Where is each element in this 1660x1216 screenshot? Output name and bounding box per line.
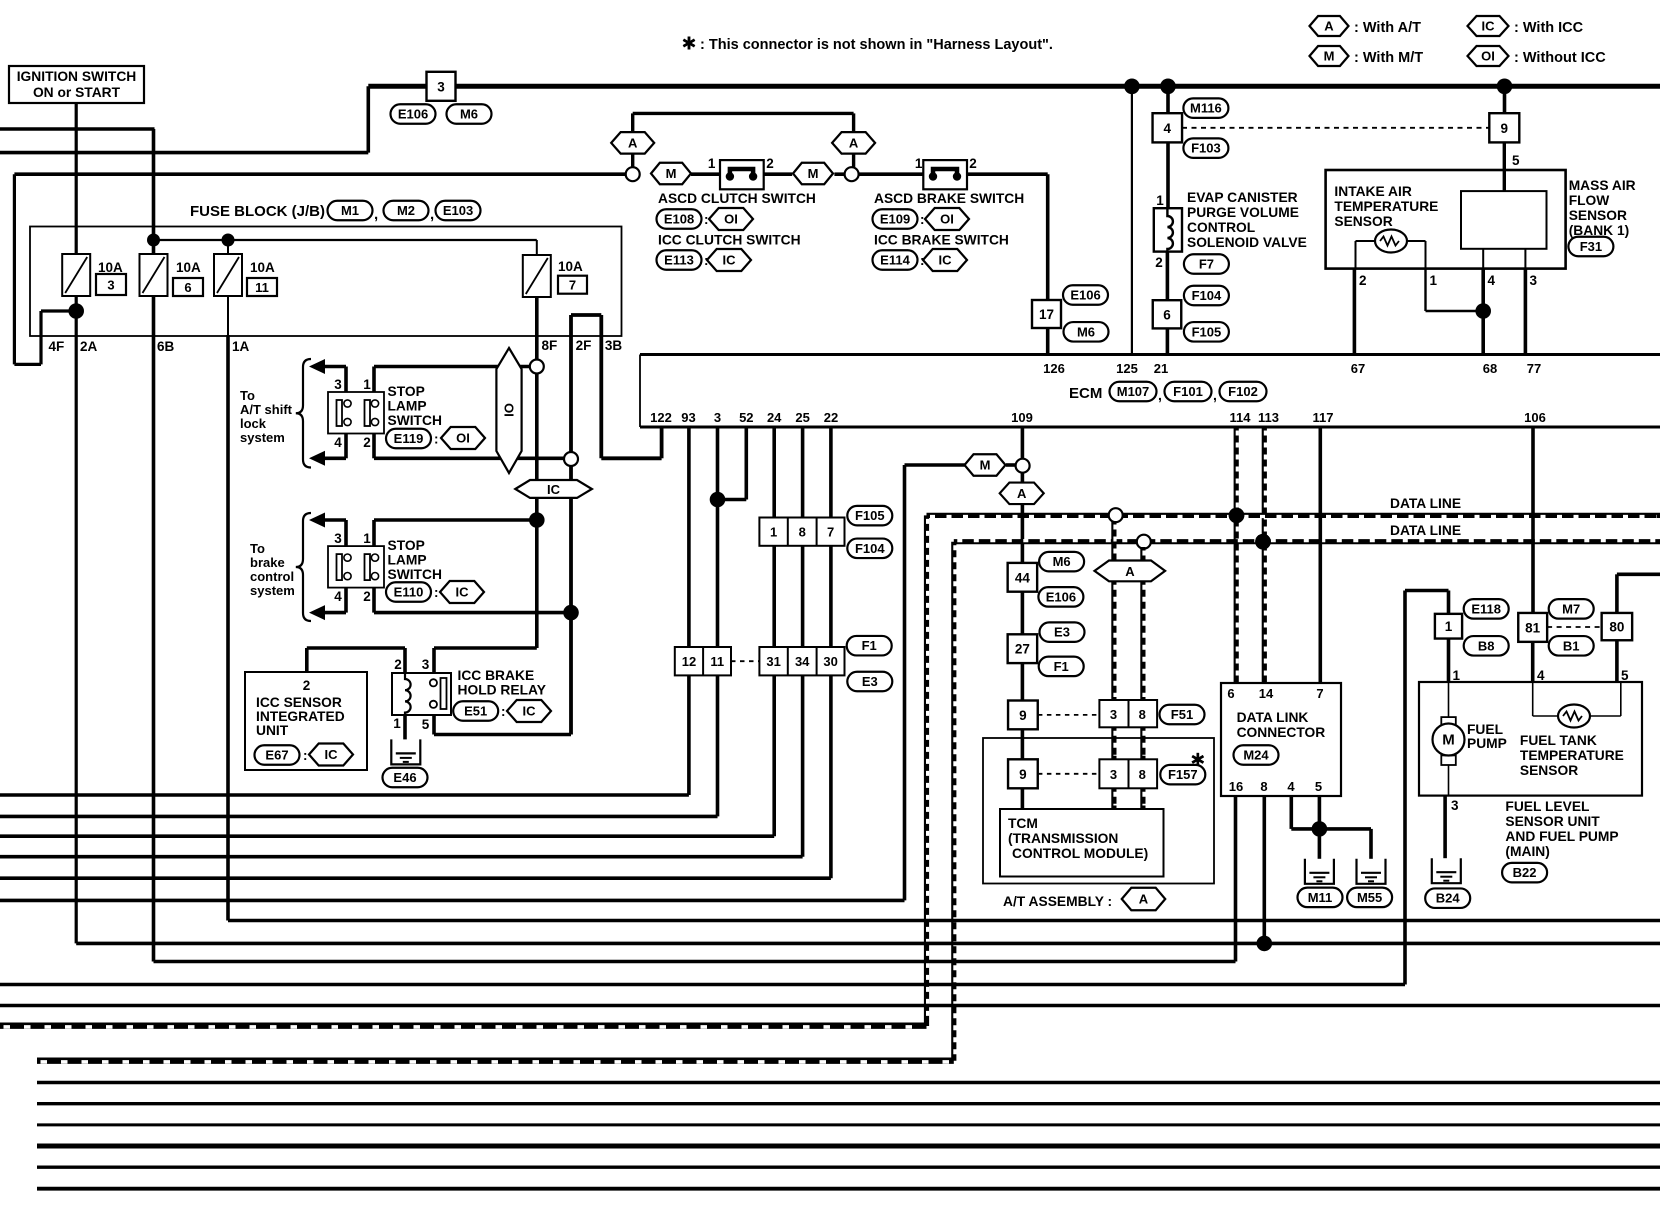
svg-text::: : bbox=[303, 748, 308, 763]
svg-text:OI: OI bbox=[1481, 49, 1495, 64]
svg-text:,: , bbox=[430, 206, 434, 223]
svg-text:B1: B1 bbox=[1563, 638, 1580, 653]
svg-text:M: M bbox=[980, 458, 991, 473]
svg-text:4F: 4F bbox=[49, 339, 65, 354]
svg-text:TEMPERATURE: TEMPERATURE bbox=[1334, 199, 1438, 214]
svg-text:1: 1 bbox=[915, 156, 923, 171]
svg-text:E110: E110 bbox=[394, 585, 424, 600]
svg-text:OI: OI bbox=[940, 212, 954, 227]
svg-text:3: 3 bbox=[437, 79, 445, 94]
svg-text:PURGE VOLUME: PURGE VOLUME bbox=[1187, 205, 1299, 220]
svg-text:8F: 8F bbox=[542, 338, 558, 353]
svg-text:2: 2 bbox=[363, 435, 371, 450]
svg-text:10A: 10A bbox=[558, 259, 583, 274]
svg-text:24: 24 bbox=[767, 410, 782, 425]
svg-text:ON or START: ON or START bbox=[33, 85, 121, 100]
svg-text:126: 126 bbox=[1043, 361, 1065, 376]
svg-text:M6: M6 bbox=[1053, 554, 1071, 569]
svg-text:E106: E106 bbox=[398, 107, 428, 122]
svg-text:2F: 2F bbox=[576, 338, 592, 353]
svg-text:9: 9 bbox=[1501, 121, 1509, 136]
svg-text:7: 7 bbox=[569, 278, 576, 293]
svg-text:A: A bbox=[849, 135, 859, 150]
svg-text:F104: F104 bbox=[1192, 288, 1222, 303]
svg-text:6: 6 bbox=[1227, 686, 1234, 701]
svg-text:11: 11 bbox=[710, 654, 724, 669]
svg-text:67: 67 bbox=[1351, 361, 1365, 376]
svg-text:1: 1 bbox=[770, 525, 777, 540]
svg-text:IGNITION SWITCH: IGNITION SWITCH bbox=[17, 69, 137, 84]
svg-text:To: To bbox=[240, 388, 255, 403]
svg-text:E113: E113 bbox=[664, 253, 694, 268]
svg-text:lock: lock bbox=[240, 416, 267, 431]
svg-text:M11: M11 bbox=[1308, 890, 1333, 905]
svg-text:M1: M1 bbox=[341, 203, 359, 218]
svg-text:LAMP: LAMP bbox=[388, 553, 427, 568]
svg-text:122: 122 bbox=[650, 410, 672, 425]
svg-text:4: 4 bbox=[334, 435, 342, 450]
svg-text:E103: E103 bbox=[443, 203, 473, 218]
svg-text:9: 9 bbox=[1019, 708, 1027, 723]
svg-text:A/T shift: A/T shift bbox=[240, 402, 293, 417]
svg-text:F7: F7 bbox=[1199, 257, 1214, 272]
svg-text:5: 5 bbox=[1512, 153, 1520, 168]
svg-text:IC: IC bbox=[547, 482, 561, 497]
svg-text:5: 5 bbox=[1621, 668, 1629, 683]
svg-text:B22: B22 bbox=[1513, 865, 1537, 880]
svg-text:8: 8 bbox=[1139, 767, 1146, 782]
svg-text:27: 27 bbox=[1015, 642, 1030, 657]
svg-text:3: 3 bbox=[1110, 767, 1117, 782]
svg-text:1: 1 bbox=[1156, 193, 1164, 208]
svg-text:81: 81 bbox=[1525, 620, 1541, 635]
svg-text:A: A bbox=[1324, 19, 1334, 34]
svg-text:3: 3 bbox=[714, 410, 721, 425]
svg-text:E67: E67 bbox=[265, 748, 288, 763]
svg-text:SENSOR UNIT: SENSOR UNIT bbox=[1505, 814, 1600, 829]
svg-text:: With M/T: : With M/T bbox=[1354, 50, 1423, 66]
svg-text:: Without ICC: : Without ICC bbox=[1514, 50, 1606, 66]
svg-text:FUEL: FUEL bbox=[1467, 722, 1503, 737]
svg-text:4: 4 bbox=[334, 589, 342, 604]
svg-text:SWITCH: SWITCH bbox=[388, 413, 442, 428]
svg-text:1A: 1A bbox=[232, 339, 250, 354]
svg-text:2: 2 bbox=[394, 657, 402, 672]
svg-text:113: 113 bbox=[1258, 410, 1279, 425]
svg-text:4: 4 bbox=[1488, 273, 1496, 288]
svg-text:3: 3 bbox=[422, 657, 430, 672]
svg-text:ICC BRAKE: ICC BRAKE bbox=[458, 668, 535, 683]
svg-text:4: 4 bbox=[1537, 668, 1545, 683]
svg-text:1: 1 bbox=[363, 377, 371, 392]
svg-text:AND FUEL PUMP: AND FUEL PUMP bbox=[1505, 829, 1618, 844]
svg-text:2: 2 bbox=[363, 589, 371, 604]
svg-text:OI: OI bbox=[502, 403, 517, 417]
svg-text:E106: E106 bbox=[1070, 288, 1100, 303]
svg-text:30: 30 bbox=[823, 654, 837, 669]
svg-text:3B: 3B bbox=[605, 338, 623, 353]
svg-text:M: M bbox=[1324, 49, 1335, 64]
svg-text:52: 52 bbox=[739, 410, 753, 425]
svg-text:: This connector is not shown: : This connector is not shown in "Harnes… bbox=[700, 37, 1053, 53]
svg-text:3: 3 bbox=[1451, 798, 1459, 813]
svg-text:ICC SENSOR: ICC SENSOR bbox=[256, 695, 342, 710]
svg-text:SWITCH: SWITCH bbox=[388, 567, 442, 582]
svg-text:E3: E3 bbox=[862, 674, 878, 689]
svg-text:1: 1 bbox=[1445, 619, 1453, 634]
svg-text:M6: M6 bbox=[1077, 324, 1095, 339]
svg-text:ICC CLUTCH SWITCH: ICC CLUTCH SWITCH bbox=[658, 233, 801, 248]
svg-text:STOP: STOP bbox=[388, 384, 425, 399]
svg-text:SENSOR: SENSOR bbox=[1520, 763, 1578, 778]
svg-text:IC: IC bbox=[723, 253, 737, 268]
svg-text:(MAIN): (MAIN) bbox=[1505, 844, 1549, 859]
svg-text:STOP: STOP bbox=[388, 538, 425, 553]
svg-text:17: 17 bbox=[1039, 307, 1054, 322]
svg-text::: : bbox=[434, 585, 439, 600]
svg-text:M24: M24 bbox=[1243, 748, 1269, 763]
svg-text:IC: IC bbox=[1482, 19, 1496, 34]
svg-text:8: 8 bbox=[799, 525, 806, 540]
svg-text:1: 1 bbox=[1430, 273, 1438, 288]
svg-text:77: 77 bbox=[1527, 361, 1541, 376]
svg-text:F101: F101 bbox=[1173, 384, 1203, 399]
svg-text:M2: M2 bbox=[397, 203, 415, 218]
svg-text:25: 25 bbox=[795, 410, 809, 425]
svg-text:2: 2 bbox=[766, 156, 774, 171]
svg-text:ECM: ECM bbox=[1069, 385, 1102, 402]
svg-text:OI: OI bbox=[456, 431, 470, 446]
svg-text:A: A bbox=[628, 135, 638, 150]
svg-text:10A: 10A bbox=[98, 260, 123, 275]
svg-text:6: 6 bbox=[184, 280, 191, 295]
svg-text:106: 106 bbox=[1524, 410, 1546, 425]
svg-text:8: 8 bbox=[1260, 779, 1267, 794]
svg-text:SENSOR: SENSOR bbox=[1569, 208, 1627, 223]
svg-text::: : bbox=[920, 212, 925, 227]
svg-text:1: 1 bbox=[1453, 668, 1461, 683]
svg-text:(TRANSMISSION: (TRANSMISSION bbox=[1008, 831, 1118, 846]
svg-text:1: 1 bbox=[363, 531, 371, 546]
svg-text:80: 80 bbox=[1609, 620, 1624, 635]
svg-text:control: control bbox=[250, 569, 294, 584]
svg-text:CONNECTOR: CONNECTOR bbox=[1237, 725, 1326, 740]
svg-text:,: , bbox=[1158, 387, 1162, 403]
svg-text:68: 68 bbox=[1483, 361, 1497, 376]
svg-text:2: 2 bbox=[969, 156, 977, 171]
svg-text:IC: IC bbox=[325, 747, 339, 762]
svg-text:E108: E108 bbox=[664, 212, 694, 227]
svg-text:16: 16 bbox=[1229, 779, 1243, 794]
svg-text:M116: M116 bbox=[1190, 101, 1222, 116]
svg-text:F1: F1 bbox=[862, 638, 877, 653]
svg-text:IC: IC bbox=[456, 585, 470, 600]
svg-text:2: 2 bbox=[303, 678, 311, 693]
svg-text:93: 93 bbox=[681, 410, 695, 425]
svg-text:DATA LINE: DATA LINE bbox=[1390, 523, 1461, 538]
svg-text:10A: 10A bbox=[176, 260, 201, 275]
svg-text:M: M bbox=[666, 166, 677, 181]
svg-text:5: 5 bbox=[422, 717, 430, 732]
svg-text:FUSE BLOCK (J/B): FUSE BLOCK (J/B) bbox=[190, 203, 325, 220]
svg-text:31: 31 bbox=[766, 654, 780, 669]
svg-text:10A: 10A bbox=[250, 260, 275, 275]
svg-text:UNIT: UNIT bbox=[256, 723, 289, 738]
svg-text:TEMPERATURE: TEMPERATURE bbox=[1520, 748, 1624, 763]
svg-text::: : bbox=[704, 212, 709, 227]
svg-text:ASCD CLUTCH SWITCH: ASCD CLUTCH SWITCH bbox=[658, 191, 816, 206]
svg-text:E114: E114 bbox=[880, 253, 910, 268]
svg-text:ICC BRAKE SWITCH: ICC BRAKE SWITCH bbox=[874, 233, 1009, 248]
svg-text:B8: B8 bbox=[1478, 638, 1495, 653]
svg-text::: : bbox=[434, 432, 439, 447]
svg-text:SOLENOID VALVE: SOLENOID VALVE bbox=[1187, 235, 1307, 250]
svg-text:6: 6 bbox=[1163, 307, 1171, 322]
svg-text:109: 109 bbox=[1011, 410, 1033, 425]
svg-text:IC: IC bbox=[939, 253, 953, 268]
svg-text:34: 34 bbox=[795, 654, 810, 669]
svg-text:3: 3 bbox=[1110, 707, 1117, 722]
svg-text:CONTROL: CONTROL bbox=[1187, 220, 1255, 235]
svg-text:E106: E106 bbox=[1046, 589, 1076, 604]
svg-text:F31: F31 bbox=[1580, 239, 1602, 254]
svg-text:CONTROL MODULE): CONTROL MODULE) bbox=[1012, 846, 1148, 861]
svg-text:3: 3 bbox=[1530, 273, 1538, 288]
svg-text:DATA LINK: DATA LINK bbox=[1237, 710, 1309, 725]
svg-text:INTEGRATED: INTEGRATED bbox=[256, 709, 345, 724]
svg-text:125: 125 bbox=[1116, 361, 1138, 376]
svg-text:brake: brake bbox=[250, 555, 285, 570]
svg-text:E118: E118 bbox=[1471, 601, 1501, 616]
svg-text:1: 1 bbox=[393, 716, 401, 731]
svg-text:F104: F104 bbox=[855, 541, 885, 556]
svg-text:7: 7 bbox=[827, 525, 834, 540]
svg-text:F105: F105 bbox=[855, 508, 885, 523]
svg-text:HOLD RELAY: HOLD RELAY bbox=[458, 683, 546, 698]
svg-text:ASCD BRAKE SWITCH: ASCD BRAKE SWITCH bbox=[874, 191, 1024, 206]
svg-text:A: A bbox=[1139, 892, 1149, 907]
svg-text:F1: F1 bbox=[1054, 659, 1069, 674]
svg-text:,: , bbox=[1213, 387, 1217, 403]
svg-text:E3: E3 bbox=[1054, 625, 1070, 640]
svg-text:2: 2 bbox=[1359, 273, 1367, 288]
svg-text:M: M bbox=[808, 166, 819, 181]
svg-text:,: , bbox=[374, 206, 378, 223]
svg-text:: With A/T: : With A/T bbox=[1354, 20, 1421, 36]
svg-text:9: 9 bbox=[1019, 767, 1027, 782]
svg-text:FUEL TANK: FUEL TANK bbox=[1520, 733, 1597, 748]
svg-text:3: 3 bbox=[107, 278, 114, 293]
svg-text:M: M bbox=[1442, 732, 1455, 749]
svg-text:EVAP CANISTER: EVAP CANISTER bbox=[1187, 190, 1298, 205]
svg-text:1: 1 bbox=[708, 156, 716, 171]
svg-text:6B: 6B bbox=[157, 339, 175, 354]
svg-text:114: 114 bbox=[1230, 410, 1252, 425]
svg-text:F105: F105 bbox=[1192, 324, 1222, 339]
svg-text:3: 3 bbox=[334, 531, 342, 546]
svg-text:INTAKE AIR: INTAKE AIR bbox=[1334, 184, 1411, 199]
svg-text:To: To bbox=[250, 541, 265, 556]
svg-text:LAMP: LAMP bbox=[388, 399, 427, 414]
svg-text:M107: M107 bbox=[1117, 384, 1150, 399]
svg-text:B24: B24 bbox=[1436, 891, 1461, 906]
svg-text:OI: OI bbox=[724, 212, 738, 227]
svg-text:system: system bbox=[240, 430, 285, 445]
svg-text:A: A bbox=[1125, 564, 1135, 579]
svg-text:12: 12 bbox=[682, 654, 696, 669]
svg-text:E119: E119 bbox=[394, 431, 424, 446]
svg-text:117: 117 bbox=[1313, 410, 1334, 425]
svg-text:M55: M55 bbox=[1357, 890, 1382, 905]
svg-text:F102: F102 bbox=[1228, 384, 1258, 399]
svg-text:E51: E51 bbox=[464, 704, 487, 719]
svg-text:TCM: TCM bbox=[1008, 816, 1038, 831]
svg-text:E46: E46 bbox=[393, 770, 416, 785]
svg-text:F103: F103 bbox=[1191, 141, 1221, 156]
svg-text:DATA LINE: DATA LINE bbox=[1390, 496, 1461, 511]
svg-text:SENSOR: SENSOR bbox=[1334, 214, 1392, 229]
svg-text:M6: M6 bbox=[460, 107, 478, 122]
svg-text:44: 44 bbox=[1015, 570, 1031, 585]
svg-text:3: 3 bbox=[334, 377, 342, 392]
svg-text:7: 7 bbox=[1316, 686, 1323, 701]
svg-text:2: 2 bbox=[1155, 255, 1163, 270]
svg-text:PUMP: PUMP bbox=[1467, 736, 1507, 751]
svg-text::: : bbox=[501, 704, 506, 719]
svg-text:E109: E109 bbox=[880, 212, 910, 227]
svg-text:5: 5 bbox=[1315, 779, 1322, 794]
svg-text:11: 11 bbox=[255, 280, 269, 295]
svg-text:F51: F51 bbox=[1171, 707, 1193, 722]
svg-text:A/T ASSEMBLY :: A/T ASSEMBLY : bbox=[1003, 894, 1112, 909]
svg-text:21: 21 bbox=[1154, 361, 1168, 376]
svg-text:22: 22 bbox=[824, 410, 838, 425]
svg-text:14: 14 bbox=[1259, 686, 1274, 701]
svg-text:2A: 2A bbox=[80, 339, 98, 354]
svg-text:IC: IC bbox=[523, 704, 537, 719]
svg-text:MASS AIR: MASS AIR bbox=[1569, 178, 1636, 193]
svg-text:4: 4 bbox=[1287, 779, 1295, 794]
svg-text:M7: M7 bbox=[1562, 601, 1580, 616]
svg-text:F157: F157 bbox=[1168, 767, 1198, 782]
svg-text:A: A bbox=[1017, 486, 1027, 501]
svg-text:4: 4 bbox=[1164, 121, 1172, 136]
svg-text:8: 8 bbox=[1139, 707, 1146, 722]
svg-text:system: system bbox=[250, 583, 295, 598]
svg-text:FLOW: FLOW bbox=[1569, 193, 1611, 208]
svg-text:: With ICC: : With ICC bbox=[1514, 20, 1584, 36]
svg-text:FUEL LEVEL: FUEL LEVEL bbox=[1505, 799, 1589, 814]
